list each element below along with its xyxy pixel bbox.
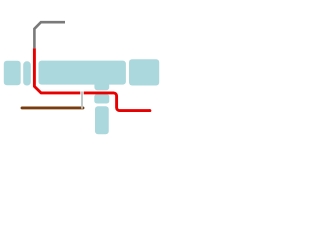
pool P1 (left square) [4,61,21,85]
pool tab B (between red line and gap) [94,94,109,103]
red line rounded end cap [148,109,151,112]
pale connector line [81,92,83,109]
pool P4 (right rectangle) [129,59,159,85]
white casing of pale connector at red crossing [80,91,83,95]
gray line (top elbow) [34,22,65,48]
pool P2 (narrow capsule) [23,61,31,85]
pool P5 (lower capsule) [95,106,109,134]
brown line [22,106,83,109]
pool tab A (below large rectangle) [94,82,109,90]
pool P3 (large rectangle) [39,61,126,85]
red line [34,48,149,110]
